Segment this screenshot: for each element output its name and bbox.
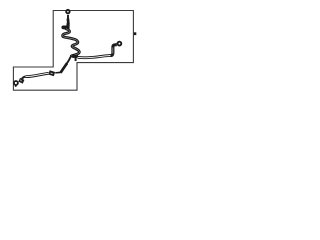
- border outline (stepped polygon): [13, 11, 133, 91]
- left pipe (diagonal run): [26, 73, 49, 76]
- left pipe end neck: [22, 77, 26, 79]
- corrugated hose section (zigzag descent): [63, 29, 80, 56]
- left fitting nut: [19, 80, 23, 82]
- right pipe (horizontal run): [78, 55, 112, 57]
- left bend from junction (lower thick part): [61, 63, 68, 73]
- left banjo ring: [14, 81, 18, 85]
- border tick (right side nub): [134, 32, 137, 35]
- right banjo ring: [118, 42, 122, 46]
- right elbow rising: [111, 45, 117, 56]
- left fitting nut highlight: [20, 80, 23, 82]
- top elbow fitting body: [67, 19, 70, 24]
- left pipe neck: [55, 71, 61, 74]
- union nut on left pipe: [49, 72, 55, 74]
- left bend from junction (upper thin part): [67, 56, 71, 63]
- top fitting stem: [67, 15, 69, 19]
- background: [0, 0, 150, 101]
- top elbow fitting nub: [63, 26, 67, 30]
- union nut highlight: [51, 72, 53, 75]
- junction stub (short drop below pipe): [75, 57, 77, 61]
- right elbow core: [112, 48, 114, 54]
- top banjo ring: [66, 10, 70, 14]
- left fitting tail: [15, 85, 17, 87]
- junction elbow at hose base: [72, 55, 78, 58]
